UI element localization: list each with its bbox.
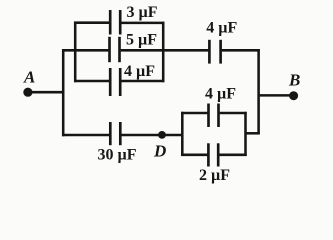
svg-text:3 µF: 3 µF — [127, 4, 158, 21]
wire box right edge — [244, 112, 247, 156]
svg-text:4 µF: 4 µF — [205, 86, 236, 103]
wire box top-right segment — [220, 112, 247, 115]
wire middle branch (5uF feed) — [62, 49, 109, 52]
capacitor 4uF box — [205, 86, 236, 127]
wire right junction bus — [162, 22, 165, 82]
svg-text:2 µF: 2 µF — [199, 167, 230, 184]
wire 3uF to right bus — [121, 22, 164, 25]
capacitor 3uF — [110, 4, 158, 34]
svg-text:4 µF: 4 µF — [124, 63, 155, 80]
wire A to left bus — [30, 91, 64, 94]
node D — [153, 131, 166, 161]
wire box bottom-right segment — [219, 154, 246, 157]
svg-text:5 µF: 5 µF — [126, 32, 157, 49]
wire 30uF to parallel box — [121, 134, 183, 137]
wire 4uF to right bus — [121, 80, 164, 83]
wire top branch — [74, 21, 109, 24]
capacitor 2uF — [199, 143, 230, 184]
wire box bottom-left segment — [181, 154, 208, 157]
svg-text:B: B — [288, 71, 300, 90]
wire top-right capacitor to right bus — [222, 49, 260, 52]
wire inner bus vertical — [74, 22, 77, 83]
node A — [23, 68, 35, 97]
svg-text:A: A — [23, 68, 35, 87]
capacitor 5uF — [110, 32, 158, 63]
svg-text:30 µF: 30 µF — [98, 147, 137, 164]
wire left bus vertical — [62, 49, 65, 136]
svg-text:4 µF: 4 µF — [206, 19, 237, 36]
svg-text:D: D — [153, 142, 166, 161]
wire box to right bus stub — [246, 132, 260, 135]
node B — [288, 71, 300, 101]
capacitor 4uF left — [110, 63, 155, 96]
wire box left edge — [181, 112, 184, 156]
wire to node B — [259, 94, 292, 97]
capacitor 30uF — [98, 122, 137, 164]
wire lower branch (4uF) — [74, 80, 109, 83]
wire bottom branch left — [62, 134, 109, 137]
wire 5uF to top-right capacitor — [121, 49, 209, 52]
capacitor 4uF top-right — [206, 19, 237, 63]
wire right bus vertical — [257, 49, 260, 134]
wire box top-left segment — [181, 112, 208, 115]
